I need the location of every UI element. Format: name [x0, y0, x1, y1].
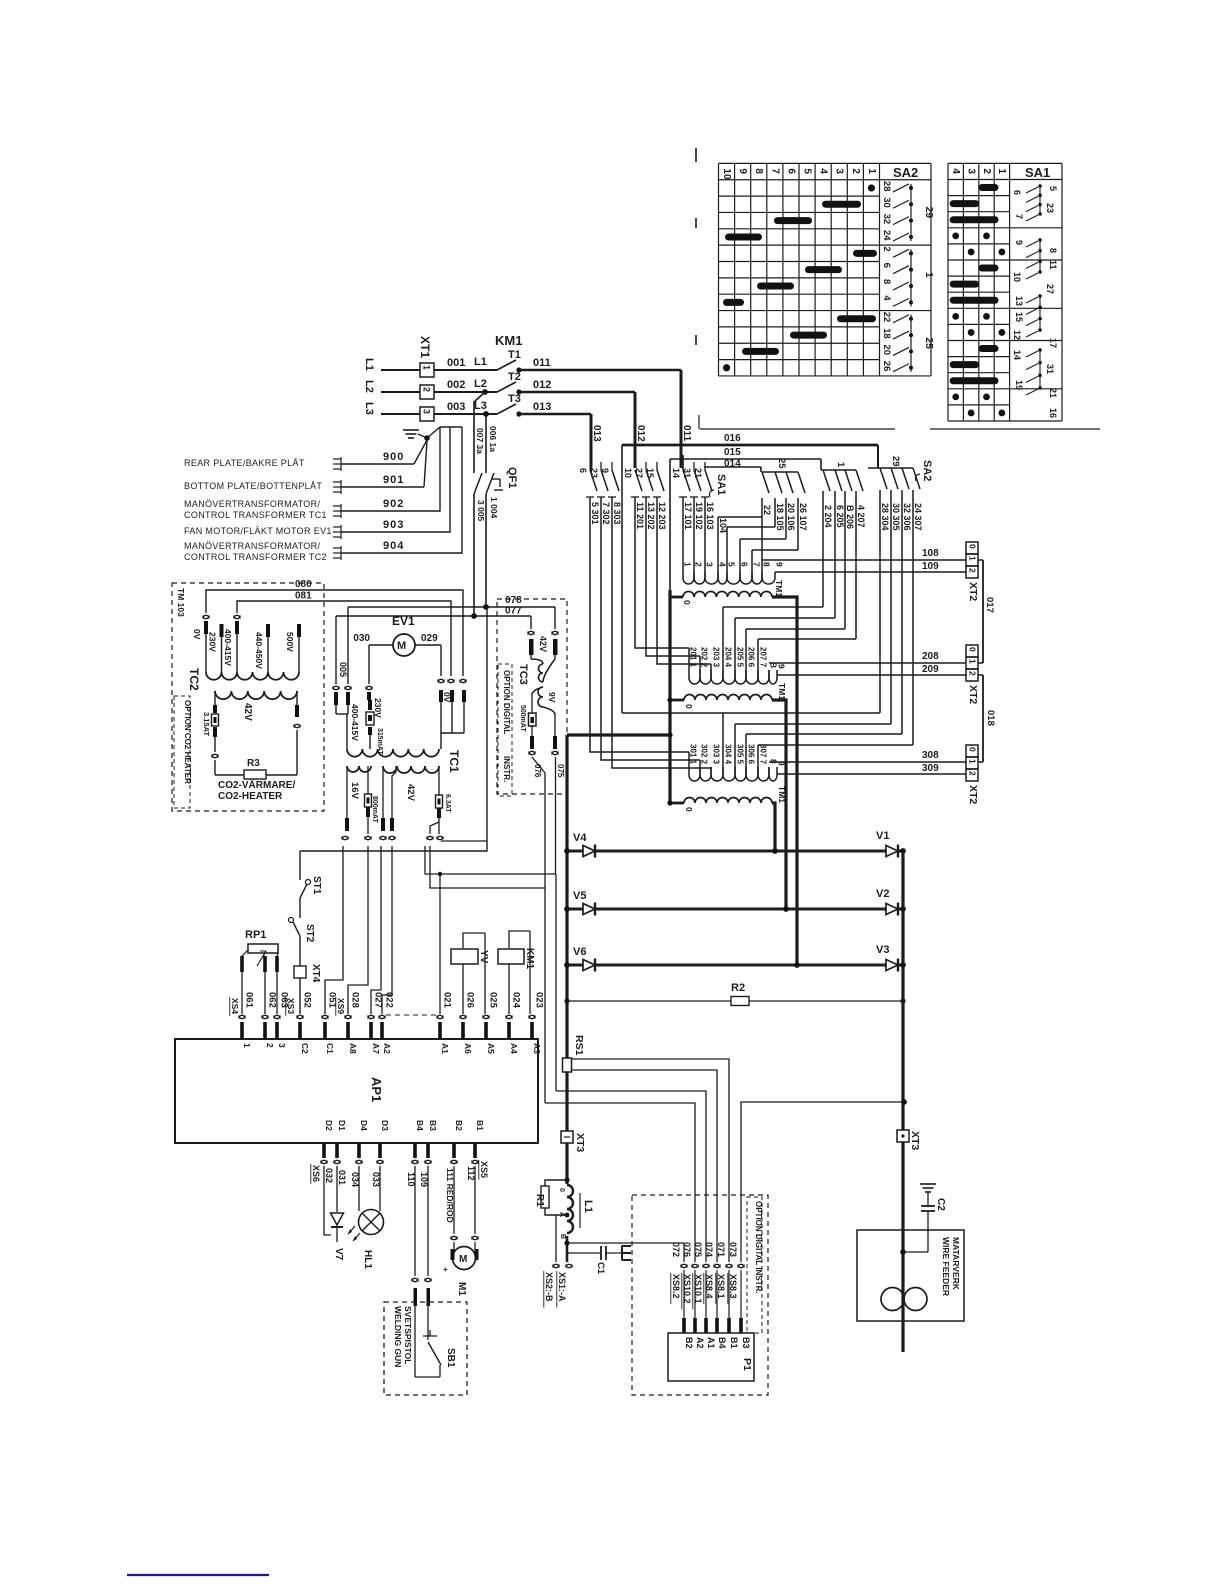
svg-text:109: 109 — [419, 1172, 429, 1187]
svg-text:13: 13 — [1014, 296, 1024, 306]
svg-text:005: 005 — [338, 662, 348, 677]
svg-text:029: 029 — [421, 633, 438, 644]
svg-text:XS6: XS6 — [311, 1165, 321, 1182]
svg-text:XS8.2: XS8.2 — [671, 1274, 681, 1299]
svg-text:015: 015 — [724, 447, 741, 458]
svg-text:B2: B2 — [684, 1337, 694, 1349]
svg-text:1: 1 — [866, 168, 877, 174]
svg-text:0V: 0V — [442, 692, 452, 703]
svg-text:201 1: 201 1 — [689, 647, 698, 668]
svg-text:WELDING GUN: WELDING GUN — [393, 1306, 403, 1367]
svg-text:22: 22 — [881, 312, 892, 323]
svg-text:305 5: 305 5 — [736, 744, 745, 765]
svg-text:V7: V7 — [333, 1248, 344, 1261]
svg-text:202 2: 202 2 — [700, 647, 709, 668]
svg-text:V2: V2 — [876, 888, 889, 900]
svg-text:M: M — [397, 640, 406, 652]
svg-text:8: 8 — [1048, 248, 1058, 253]
svg-text:XS8.1: XS8.1 — [716, 1274, 726, 1299]
svg-text:TM1: TM1 — [774, 580, 784, 597]
svg-text:L3: L3 — [474, 400, 487, 412]
svg-text:1: 1 — [968, 556, 978, 561]
svg-text:27: 27 — [634, 468, 644, 478]
svg-text:011: 011 — [681, 425, 692, 442]
svg-text:SB1: SB1 — [445, 1348, 456, 1368]
svg-text:YV: YV — [478, 950, 489, 964]
svg-text:SVETSPISTOL: SVETSPISTOL — [403, 1306, 413, 1364]
svg-text:12: 12 — [1012, 330, 1022, 340]
svg-text:CONTROL TRANSFORMER TC2: CONTROL TRANSFORMER TC2 — [184, 552, 327, 562]
svg-text:074: 074 — [704, 1242, 714, 1257]
svg-text:22: 22 — [762, 505, 772, 515]
svg-text:012: 012 — [635, 425, 646, 442]
svg-text:2: 2 — [968, 771, 978, 776]
svg-text:XT3: XT3 — [574, 1133, 586, 1152]
svg-text:26: 26 — [881, 361, 892, 372]
svg-text:6: 6 — [785, 168, 796, 174]
svg-text:D1: D1 — [337, 1120, 347, 1131]
svg-text:4 207: 4 207 — [856, 505, 866, 528]
svg-text:1: 1 — [683, 562, 693, 567]
svg-text:0: 0 — [968, 747, 978, 752]
svg-text:XS10.1: XS10.1 — [693, 1274, 703, 1304]
svg-text:230V: 230V — [208, 632, 218, 652]
svg-text:MANÖVERTRANSFORMATOR/: MANÖVERTRANSFORMATOR/ — [184, 541, 321, 551]
svg-text:T2: T2 — [508, 371, 521, 383]
svg-text:6: 6 — [1012, 190, 1022, 195]
svg-text:062: 062 — [267, 992, 278, 1008]
svg-text:0: 0 — [684, 704, 694, 709]
svg-text:L2: L2 — [474, 378, 487, 390]
svg-text:0: 0 — [968, 544, 978, 549]
svg-text:500mAT: 500mAT — [519, 705, 526, 732]
svg-text:4: 4 — [718, 562, 728, 567]
svg-text:CO2-VÄRMARE/: CO2-VÄRMARE/ — [218, 778, 295, 791]
svg-text:19 102: 19 102 — [694, 502, 704, 530]
svg-text:27: 27 — [1045, 284, 1055, 294]
svg-text:L1: L1 — [474, 356, 487, 368]
svg-text:8: 8 — [753, 168, 764, 174]
svg-text:WIRE FEEDER: WIRE FEEDER — [941, 1237, 951, 1296]
svg-text:902: 902 — [383, 498, 404, 510]
svg-text:23: 23 — [589, 468, 599, 478]
svg-text:MATARVERK: MATARVERK — [951, 1237, 961, 1291]
svg-text:C1: C1 — [325, 1043, 335, 1054]
svg-text:003: 003 — [447, 401, 465, 413]
svg-text:FAN MOTOR/FLÄKT MOTOR EV1: FAN MOTOR/FLÄKT MOTOR EV1 — [184, 526, 332, 536]
svg-text:BOTTOM PLATE/BOTTENPLÅT: BOTTOM PLATE/BOTTENPLÅT — [184, 481, 322, 491]
svg-text:900: 900 — [383, 451, 404, 463]
svg-text:V4: V4 — [573, 832, 587, 844]
svg-text:XS4: XS4 — [230, 998, 240, 1014]
svg-text:KM1: KM1 — [495, 333, 522, 348]
svg-text:26 107: 26 107 — [798, 503, 808, 531]
svg-text:10: 10 — [1012, 272, 1022, 282]
svg-text:20 106: 20 106 — [786, 503, 796, 531]
svg-text:V3: V3 — [876, 944, 889, 956]
svg-text:440-450V: 440-450V — [254, 632, 264, 669]
svg-text:RP1: RP1 — [245, 929, 266, 941]
svg-text:B1: B1 — [729, 1337, 739, 1349]
svg-text:31: 31 — [1045, 364, 1055, 374]
svg-text:800mAT: 800mAT — [371, 796, 378, 823]
svg-text:904: 904 — [383, 540, 404, 552]
svg-text:B: B — [559, 1234, 566, 1239]
svg-text:032: 032 — [324, 1168, 334, 1183]
svg-text:075: 075 — [556, 764, 565, 778]
svg-text:D4: D4 — [359, 1120, 369, 1131]
svg-text:QF1: QF1 — [506, 467, 518, 488]
svg-text:052: 052 — [302, 992, 313, 1008]
svg-text:9: 9 — [777, 664, 787, 669]
svg-text:011: 011 — [533, 357, 551, 369]
svg-text:031: 031 — [337, 1170, 347, 1185]
svg-text:15: 15 — [1014, 312, 1024, 322]
svg-text:16V: 16V — [349, 782, 360, 800]
svg-text:14: 14 — [1012, 350, 1022, 360]
svg-text:013: 013 — [533, 401, 551, 413]
svg-text:2: 2 — [265, 1043, 275, 1048]
svg-text:18 105: 18 105 — [775, 503, 785, 531]
svg-text:4: 4 — [881, 295, 892, 301]
svg-text:030: 030 — [353, 633, 370, 644]
svg-text:1: 1 — [968, 759, 978, 764]
svg-text:5: 5 — [727, 562, 737, 567]
svg-text:2 204: 2 204 — [823, 505, 833, 528]
svg-text:8: 8 — [881, 279, 892, 284]
svg-text:A1: A1 — [440, 1043, 450, 1054]
svg-text:20: 20 — [881, 344, 892, 355]
svg-text:2: 2 — [850, 168, 861, 174]
svg-text:XT2: XT2 — [967, 685, 979, 704]
svg-text:TM 103: TM 103 — [176, 588, 186, 617]
svg-text:112: 112 — [466, 1166, 476, 1181]
svg-text:3: 3 — [422, 409, 432, 414]
svg-text:11: 11 — [1048, 260, 1058, 270]
svg-text:016: 016 — [724, 433, 741, 444]
svg-text:209: 209 — [922, 664, 939, 675]
svg-text:9: 9 — [1014, 240, 1024, 245]
svg-text:1: 1 — [996, 168, 1007, 174]
svg-text:A2: A2 — [695, 1337, 705, 1349]
svg-text:XS8.4: XS8.4 — [704, 1274, 714, 1299]
svg-text:T3: T3 — [508, 393, 521, 405]
svg-text:MANÖVERTRANSFORMATOR/: MANÖVERTRANSFORMATOR/ — [184, 499, 321, 509]
svg-text:18: 18 — [881, 328, 892, 339]
svg-text:L3: L3 — [363, 402, 375, 415]
svg-text:081: 081 — [295, 591, 312, 602]
svg-text:207 7: 207 7 — [759, 647, 768, 668]
svg-text:1: 1 — [242, 1043, 252, 1048]
svg-text:078: 078 — [505, 595, 522, 606]
svg-text:6: 6 — [578, 468, 588, 473]
svg-text:072: 072 — [671, 1242, 681, 1257]
svg-text:V1: V1 — [876, 830, 889, 842]
svg-text:012: 012 — [533, 379, 551, 391]
svg-text:2: 2 — [422, 387, 432, 392]
svg-text:M1: M1 — [456, 1282, 467, 1296]
svg-text:308: 308 — [922, 750, 939, 761]
svg-text:302 2: 302 2 — [700, 744, 709, 765]
svg-text:7: 7 — [752, 562, 762, 567]
svg-text:3.15AT: 3.15AT — [202, 712, 211, 736]
svg-text:XT3: XT3 — [909, 1131, 921, 1150]
svg-text:400-415V: 400-415V — [223, 629, 233, 666]
svg-text:1: 1 — [835, 462, 846, 468]
svg-text:+: + — [443, 1265, 448, 1274]
svg-text:A3: A3 — [532, 1043, 542, 1054]
svg-text:A2: A2 — [382, 1043, 392, 1054]
svg-text:ST2: ST2 — [304, 924, 315, 943]
svg-text:3: 3 — [965, 168, 976, 174]
svg-text:R3: R3 — [247, 758, 260, 769]
svg-text:025: 025 — [488, 992, 499, 1009]
svg-text:XT1: XT1 — [418, 336, 432, 358]
svg-text:29: 29 — [890, 456, 901, 467]
svg-text:10: 10 — [623, 468, 633, 478]
svg-text:B1: B1 — [475, 1120, 485, 1131]
svg-text:XS5: XS5 — [479, 1161, 489, 1178]
svg-text:XT2: XT2 — [967, 785, 979, 804]
svg-text:001: 001 — [447, 357, 465, 369]
svg-text:006 1a: 006 1a — [488, 426, 498, 452]
svg-text:B4: B4 — [415, 1120, 425, 1131]
svg-text:EV1: EV1 — [392, 614, 415, 628]
svg-text:061: 061 — [244, 992, 255, 1009]
svg-text:11 201: 11 201 — [635, 502, 645, 529]
svg-text:034: 034 — [350, 1172, 360, 1187]
svg-text:021: 021 — [442, 992, 453, 1009]
svg-text:110: 110 — [406, 1172, 416, 1187]
svg-text:HL1: HL1 — [362, 1250, 373, 1269]
svg-text:25: 25 — [776, 458, 787, 469]
svg-text:TC1: TC1 — [447, 750, 461, 773]
svg-text:903: 903 — [383, 519, 404, 531]
svg-text:6: 6 — [740, 562, 750, 567]
svg-text:309: 309 — [922, 763, 939, 774]
svg-text:2: 2 — [968, 568, 978, 573]
svg-text:OPTION DIGITAL INSTR.: OPTION DIGITAL INSTR. — [754, 1201, 763, 1294]
svg-text:7: 7 — [769, 168, 780, 174]
svg-text:0: 0 — [684, 807, 694, 812]
svg-text:500V: 500V — [285, 632, 295, 652]
svg-text:28: 28 — [881, 181, 892, 192]
svg-text:29: 29 — [923, 206, 935, 218]
svg-text:023: 023 — [534, 992, 545, 1008]
svg-text:CONTROL TRANSFORMER TC1: CONTROL TRANSFORMER TC1 — [184, 510, 327, 520]
svg-text:AP1: AP1 — [369, 1077, 384, 1102]
svg-text:303 3: 303 3 — [712, 744, 721, 765]
svg-text:17: 17 — [1048, 338, 1058, 348]
svg-text:TC2: TC2 — [187, 668, 201, 691]
svg-text:7 302: 7 302 — [601, 502, 611, 525]
svg-text:RS1: RS1 — [573, 1035, 585, 1056]
svg-text:2: 2 — [694, 562, 704, 567]
svg-text:077: 077 — [505, 606, 522, 617]
svg-text:A8: A8 — [348, 1043, 358, 1054]
svg-text:T1: T1 — [508, 349, 521, 361]
svg-text:R2: R2 — [731, 982, 745, 994]
svg-text:026: 026 — [465, 992, 476, 1008]
svg-text:30: 30 — [881, 197, 892, 208]
svg-text:10: 10 — [721, 168, 732, 180]
svg-text:V6: V6 — [573, 946, 586, 958]
svg-text:C2: C2 — [300, 1043, 310, 1054]
svg-text:28 304: 28 304 — [880, 503, 890, 531]
svg-text:111 RED/RÖD: 111 RED/RÖD — [445, 1168, 455, 1223]
svg-text:A6: A6 — [463, 1043, 473, 1054]
svg-text:42V: 42V — [242, 703, 253, 721]
svg-text:024: 024 — [511, 992, 522, 1009]
svg-text:1: 1 — [422, 365, 432, 370]
svg-text:SA2: SA2 — [921, 460, 933, 481]
svg-text:13 202: 13 202 — [646, 502, 656, 530]
svg-text:P1: P1 — [741, 1358, 753, 1371]
svg-text:16: 16 — [1048, 408, 1058, 418]
svg-text:XS3: XS3 — [286, 998, 296, 1014]
svg-text:XS2:-B: XS2:-B — [544, 1272, 554, 1302]
svg-text:007 3a: 007 3a — [475, 428, 485, 454]
svg-text:5 301: 5 301 — [590, 502, 600, 525]
svg-text:306 6: 306 6 — [747, 744, 756, 765]
svg-text:CO2-HEATER: CO2-HEATER — [218, 791, 283, 802]
svg-text:B3: B3 — [741, 1337, 751, 1349]
svg-text:109: 109 — [922, 561, 939, 572]
svg-text:013: 013 — [591, 425, 602, 442]
svg-text:32: 32 — [881, 214, 892, 225]
svg-text:24 307: 24 307 — [913, 503, 923, 531]
svg-text:2: 2 — [981, 168, 992, 174]
svg-text:C1: C1 — [595, 1262, 606, 1275]
svg-text:2: 2 — [881, 246, 892, 251]
svg-text:4: 4 — [950, 168, 961, 174]
svg-text:SA1: SA1 — [715, 474, 727, 495]
svg-text:017: 017 — [984, 597, 995, 613]
svg-text:V5: V5 — [573, 890, 586, 902]
svg-text:A7: A7 — [371, 1043, 381, 1054]
svg-text:B3: B3 — [428, 1120, 438, 1131]
svg-text:1: 1 — [968, 659, 978, 664]
svg-text:XT4: XT4 — [310, 964, 321, 983]
svg-text:XS8.3: XS8.3 — [728, 1274, 738, 1299]
svg-text:25: 25 — [923, 337, 935, 349]
svg-text:SA1: SA1 — [1025, 165, 1050, 180]
svg-text:16 103: 16 103 — [705, 502, 715, 530]
svg-text:24: 24 — [881, 230, 892, 241]
svg-text:30 305: 30 305 — [891, 503, 901, 531]
svg-text:304 4: 304 4 — [724, 744, 733, 765]
svg-text:ST1: ST1 — [311, 876, 322, 895]
svg-text:B2: B2 — [454, 1120, 464, 1131]
svg-text:0V: 0V — [192, 629, 202, 640]
svg-text:5: 5 — [1048, 186, 1058, 191]
svg-text:INSTR.: INSTR. — [502, 756, 511, 782]
svg-text:SA2: SA2 — [893, 165, 918, 180]
svg-text:21: 21 — [1048, 388, 1058, 398]
svg-text:1 004: 1 004 — [489, 497, 499, 519]
svg-text:L1: L1 — [582, 1200, 594, 1213]
svg-text:400-415V: 400-415V — [350, 704, 360, 741]
svg-text:17 101: 17 101 — [683, 502, 693, 530]
svg-text:A5: A5 — [486, 1043, 496, 1054]
svg-text:076: 076 — [533, 764, 542, 778]
svg-text:L1: L1 — [363, 358, 375, 371]
svg-text:8: 8 — [762, 562, 772, 567]
svg-text:3: 3 — [834, 168, 845, 174]
svg-text:9: 9 — [775, 562, 785, 567]
svg-text:R1: R1 — [534, 1194, 545, 1207]
svg-text:32 306: 32 306 — [902, 503, 912, 531]
svg-text:7: 7 — [1014, 214, 1024, 219]
svg-text:23: 23 — [1045, 203, 1055, 213]
svg-text:12 203: 12 203 — [657, 502, 667, 530]
svg-text:6.3AT: 6.3AT — [444, 794, 451, 813]
svg-text:307 7: 307 7 — [759, 744, 768, 765]
svg-text:C2: C2 — [935, 1198, 946, 1211]
svg-text:A4: A4 — [509, 1043, 519, 1054]
svg-text:901: 901 — [383, 474, 404, 486]
svg-text:6 205: 6 205 — [835, 505, 845, 528]
svg-text:018: 018 — [985, 710, 996, 726]
svg-text:014: 014 — [724, 459, 741, 470]
svg-text:XS9: XS9 — [336, 998, 346, 1014]
svg-text:14: 14 — [671, 468, 681, 478]
svg-text:204 4: 204 4 — [724, 647, 733, 668]
svg-text:108: 108 — [922, 548, 939, 559]
svg-text:3 005: 3 005 — [476, 500, 486, 522]
svg-text:002: 002 — [447, 379, 465, 391]
svg-text:0: 0 — [682, 600, 692, 605]
svg-text:073: 073 — [728, 1242, 738, 1257]
svg-text:L2: L2 — [363, 380, 375, 393]
svg-text:080: 080 — [295, 579, 312, 590]
svg-text:2: 2 — [968, 671, 978, 676]
svg-text:9V: 9V — [547, 692, 557, 703]
svg-text:TM1: TM1 — [777, 683, 787, 700]
svg-text:8 303: 8 303 — [612, 502, 622, 525]
svg-text:3: 3 — [277, 1043, 287, 1048]
svg-text:033: 033 — [371, 1172, 381, 1187]
svg-text:203 3: 203 3 — [712, 647, 721, 668]
svg-text:1: 1 — [923, 272, 935, 278]
svg-text:206 6: 206 6 — [747, 647, 756, 668]
svg-text:5: 5 — [802, 168, 813, 174]
svg-text:M: M — [459, 1254, 467, 1265]
svg-text:028: 028 — [350, 992, 361, 1008]
svg-text:TC3: TC3 — [517, 664, 529, 685]
svg-text:A1: A1 — [706, 1337, 716, 1349]
svg-text:XS1:-A: XS1:-A — [557, 1272, 567, 1302]
svg-text:9: 9 — [737, 168, 748, 174]
svg-text:D3: D3 — [380, 1120, 390, 1131]
svg-text:075: 075 — [693, 1242, 703, 1257]
svg-text:301 1: 301 1 — [689, 744, 698, 765]
svg-text:208: 208 — [922, 651, 939, 662]
svg-text:D2: D2 — [324, 1120, 334, 1131]
svg-text:076: 076 — [682, 1242, 692, 1257]
svg-text:42V: 42V — [538, 636, 548, 652]
svg-text:071: 071 — [716, 1242, 726, 1257]
svg-text:3: 3 — [705, 562, 715, 567]
svg-text:OPTION CO2 HEATER: OPTION CO2 HEATER — [183, 700, 192, 784]
svg-text:6: 6 — [881, 263, 892, 268]
svg-text:230V: 230V — [373, 698, 383, 718]
svg-text:OPTION DIGITAL: OPTION DIGITAL — [502, 670, 511, 734]
svg-text:B 206: B 206 — [845, 505, 855, 529]
svg-text:XT2: XT2 — [967, 582, 979, 601]
svg-text:0: 0 — [968, 647, 978, 652]
svg-text:19: 19 — [1014, 380, 1024, 390]
